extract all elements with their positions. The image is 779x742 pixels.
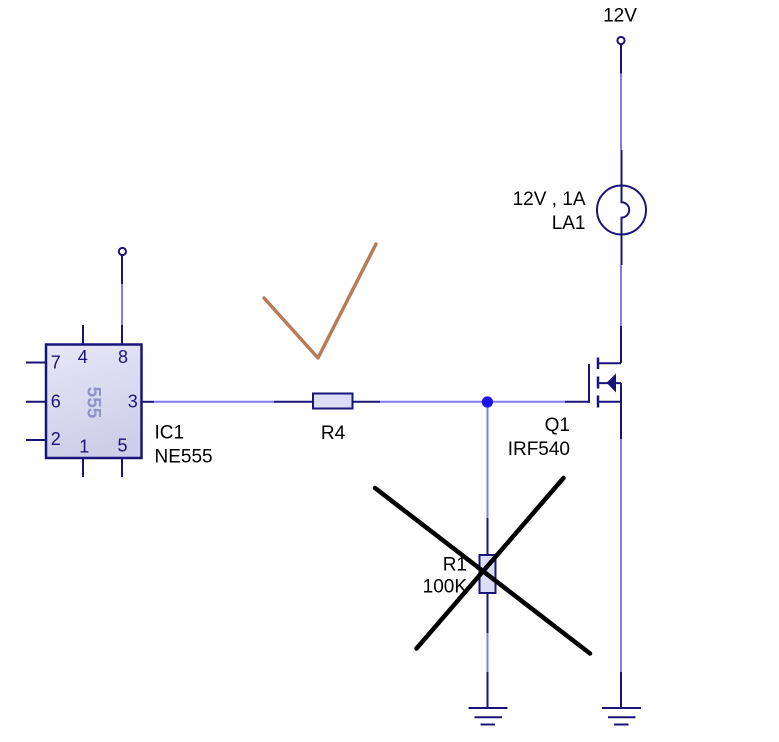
svg-text:100K: 100K (423, 577, 468, 598)
svg-text:12V: 12V (603, 6, 637, 27)
svg-text:8: 8 (118, 347, 128, 367)
svg-text:Q1: Q1 (545, 415, 570, 436)
svg-text:555: 555 (82, 387, 103, 419)
svg-text:R1: R1 (443, 555, 467, 576)
svg-text:6: 6 (51, 391, 61, 411)
svg-text:2: 2 (51, 429, 61, 449)
svg-text:IRF540: IRF540 (508, 439, 570, 460)
svg-text:5: 5 (118, 436, 128, 456)
svg-text:7: 7 (51, 353, 61, 373)
svg-text:R4: R4 (321, 423, 346, 444)
svg-text:NE555: NE555 (155, 447, 213, 468)
svg-text:IC1: IC1 (155, 423, 185, 444)
svg-text:3: 3 (128, 392, 138, 412)
svg-text:1: 1 (79, 436, 89, 456)
svg-text:LA1: LA1 (552, 213, 586, 234)
svg-text:12V , 1A: 12V , 1A (513, 189, 586, 210)
svg-text:4: 4 (78, 347, 88, 367)
